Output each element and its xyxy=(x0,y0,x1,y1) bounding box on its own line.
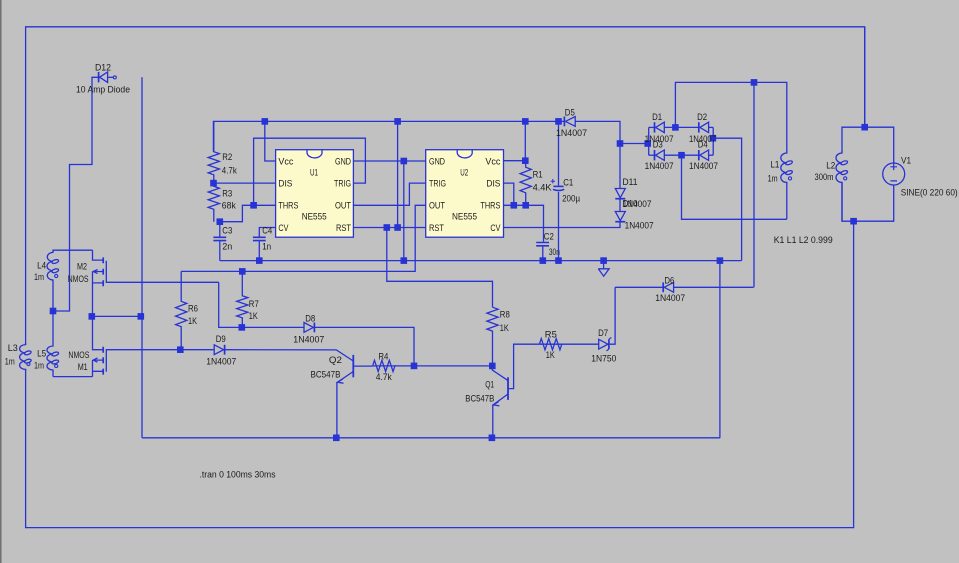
svg-text:TRIG: TRIG xyxy=(429,178,446,188)
inductor L1 xyxy=(781,151,787,219)
junction L4-L5-D12 xyxy=(50,308,57,315)
svg-text:2n: 2n xyxy=(222,241,232,251)
wire C2 bottom lead xyxy=(542,247,544,261)
wire D6 anode line xyxy=(674,286,754,288)
svg-text:68k: 68k xyxy=(222,201,236,211)
junction bridge right mid xyxy=(710,135,717,142)
junction C4 ground xyxy=(256,257,263,264)
svg-text:RST: RST xyxy=(336,223,351,233)
wire V1 loop top xyxy=(842,127,894,163)
junction R6-D9 xyxy=(177,346,184,353)
wire bridge return drop xyxy=(719,261,721,438)
wire A Vcc to RST xyxy=(397,121,399,227)
svg-text:4.4K: 4.4K xyxy=(533,183,553,193)
wire bridge bottom row xyxy=(649,154,655,156)
svg-text:NE555: NE555 xyxy=(452,211,477,221)
resistor R7 xyxy=(237,271,248,327)
svg-text:1K: 1K xyxy=(188,316,198,326)
svg-text:D6: D6 xyxy=(664,275,674,285)
svg-text:C2: C2 xyxy=(544,232,554,242)
diode D2 xyxy=(698,122,700,132)
junction bridge return xyxy=(717,257,724,264)
op-amp U1 NE555 box xyxy=(276,150,354,238)
wire ground rail xyxy=(220,260,742,262)
svg-text:SINE(0 220 60): SINE(0 220 60) xyxy=(901,187,958,197)
voltage source V1 xyxy=(883,163,905,185)
svg-text:L4: L4 xyxy=(37,260,46,270)
capacitor C4 xyxy=(253,237,266,240)
wire D1-D2 xyxy=(664,126,698,128)
diode D11 xyxy=(615,198,625,200)
svg-text:1N4007: 1N4007 xyxy=(645,161,674,171)
svg-text:1K: 1K xyxy=(546,350,556,360)
svg-text:1n: 1n xyxy=(262,241,271,251)
junction loop bottom feed xyxy=(850,218,857,225)
wire AC tap down xyxy=(753,82,755,287)
svg-text:GND: GND xyxy=(335,156,351,166)
diode D6 xyxy=(662,282,664,292)
svg-text:U2: U2 xyxy=(460,167,468,177)
junction AC top tap xyxy=(751,79,758,86)
wire Vcc U2 xyxy=(503,121,525,160)
svg-text:1m: 1m xyxy=(768,173,778,183)
wire D12 anode xyxy=(53,77,98,311)
wire CV U1 xyxy=(259,228,275,237)
wire D9 cathode line xyxy=(225,349,337,351)
wire D2 right xyxy=(709,126,714,128)
wire B GND drop xyxy=(403,161,405,261)
svg-text:R5: R5 xyxy=(545,329,557,339)
wire bridge top row xyxy=(649,126,655,128)
wire outer border xyxy=(26,27,865,345)
svg-text:THRS: THRS xyxy=(480,201,500,211)
capacitor C2 xyxy=(536,243,549,246)
junction R2-R3-DIS xyxy=(210,180,217,187)
junction R1-THRS xyxy=(522,202,529,209)
op-amp U2 NE555 box xyxy=(426,150,504,238)
svg-text:R8: R8 xyxy=(500,310,510,320)
wire D7 to D6 node xyxy=(609,287,615,344)
svg-text:1N4007: 1N4007 xyxy=(655,293,685,303)
junction GND line xyxy=(401,158,408,165)
resistor R2 xyxy=(208,121,219,183)
svg-text:1K: 1K xyxy=(249,311,259,321)
junction bridge top mid xyxy=(672,124,679,131)
svg-text:L2: L2 xyxy=(826,160,835,170)
resistor R5 xyxy=(539,339,561,350)
wire C3 top lead xyxy=(219,222,221,237)
wire D3-D4 xyxy=(664,154,698,156)
junction bridge left xyxy=(644,140,651,147)
wire D8 anode line xyxy=(242,326,304,328)
svg-text:4.7k: 4.7k xyxy=(376,372,392,382)
wire D10 to CV U2 xyxy=(503,222,620,228)
wire C3 bottom lead xyxy=(219,241,221,260)
wire V1 loop bottom xyxy=(842,182,894,221)
ground symbol xyxy=(598,261,609,277)
svg-text:C4: C4 xyxy=(262,225,272,235)
wire bridge AC top xyxy=(675,82,786,151)
junction DIS-THRS xyxy=(511,202,518,209)
wire THRS to TRIG crossover xyxy=(254,138,366,205)
svg-text:BC547B: BC547B xyxy=(311,369,341,379)
svg-text:R2: R2 xyxy=(222,152,232,162)
svg-text:200µ: 200µ xyxy=(562,194,581,204)
junction top rail Vcc U1 xyxy=(262,118,269,125)
wire M2 gate to D8 node xyxy=(219,282,242,327)
junction R8-Q1 xyxy=(489,363,496,370)
resistor R3 xyxy=(208,183,219,222)
junction D5 branch xyxy=(617,140,624,147)
junction loop top feed xyxy=(861,124,868,131)
junction top rail Vcc U2 xyxy=(522,118,529,125)
junction RST-R8 branch xyxy=(384,224,391,231)
svg-text:1K: 1K xyxy=(500,323,510,333)
wire D11-D10 xyxy=(619,199,621,212)
svg-text:CV: CV xyxy=(490,223,501,233)
wire R4 node to R8 xyxy=(414,365,492,367)
junction top rail A xyxy=(394,118,401,125)
svg-text:L5: L5 xyxy=(37,349,46,359)
wire D4 right xyxy=(709,154,714,156)
wire L1 return xyxy=(682,155,787,219)
svg-text:1N4007: 1N4007 xyxy=(293,334,324,344)
svg-text:C1: C1 xyxy=(563,178,573,188)
svg-text:RST: RST xyxy=(429,223,444,233)
svg-text:GND: GND xyxy=(429,156,445,166)
svg-text:BC547B: BC547B xyxy=(465,393,494,403)
wire L5 bottom xyxy=(53,376,93,378)
resistor R8 xyxy=(487,307,498,366)
D12 open terminal xyxy=(113,76,116,79)
diode D4 xyxy=(698,150,700,160)
svg-text:NE555: NE555 xyxy=(302,211,327,221)
wire C1 bottom xyxy=(558,192,560,261)
svg-text:R6: R6 xyxy=(188,303,198,313)
wire R4 right xyxy=(395,365,414,367)
svg-text:1m: 1m xyxy=(5,357,15,367)
diode D5 xyxy=(563,117,565,127)
svg-text:.tran 0 100ms 30ms: .tran 0 100ms 30ms xyxy=(200,470,276,480)
junction mid to vertical xyxy=(138,313,145,320)
resistor R4 xyxy=(373,360,395,371)
svg-text:10 Amp Diode: 10 Amp Diode xyxy=(76,85,130,95)
wire node half-bridge to bottom rail xyxy=(141,77,143,438)
svg-text:D11: D11 xyxy=(623,177,638,187)
svg-text:1N4007: 1N4007 xyxy=(689,161,718,171)
wire GND U1-U2 xyxy=(353,160,425,162)
wire R5 to D7 xyxy=(562,343,599,345)
svg-text:M1: M1 xyxy=(78,362,88,372)
wire D11 top lead xyxy=(619,144,621,189)
svg-text:4.7k: 4.7k xyxy=(222,166,237,176)
svg-text:DIS: DIS xyxy=(486,178,500,188)
inductor L2 xyxy=(836,151,842,221)
svg-text:1N4007: 1N4007 xyxy=(206,357,236,367)
capacitor C1 (polarized) xyxy=(553,185,563,187)
wire border left lower xyxy=(26,221,854,527)
junction M2 source / M1 drain xyxy=(89,313,96,320)
D7 zener hooks xyxy=(607,338,612,351)
wire C1 top xyxy=(558,121,560,185)
wire bridge feed xyxy=(620,143,647,145)
resistor R6 xyxy=(176,271,187,348)
svg-text:D9: D9 xyxy=(216,334,226,344)
wire bridge left xyxy=(648,127,650,155)
junction R7 top xyxy=(239,268,246,275)
wire OUT U2 down xyxy=(181,205,426,271)
junction C1 ground xyxy=(555,257,562,264)
diode D7 (zener 1N750) xyxy=(608,339,610,349)
svg-text:D7: D7 xyxy=(598,328,608,338)
svg-text:CV: CV xyxy=(278,223,289,233)
wire bridge DC out xyxy=(713,138,742,260)
svg-text:K1 L1 L2 0.999: K1 L1 L2 0.999 xyxy=(774,235,833,245)
svg-text:1N750: 1N750 xyxy=(591,354,616,364)
transistor M1 (NMOS, mirrored) xyxy=(93,316,103,349)
svg-text:R1: R1 xyxy=(533,169,543,179)
svg-text:Q2: Q2 xyxy=(329,355,342,365)
svg-text:TRIG: TRIG xyxy=(334,178,351,188)
svg-text:D5: D5 xyxy=(565,108,575,118)
svg-text:NMOS: NMOS xyxy=(68,274,89,284)
svg-text:D2: D2 xyxy=(697,112,707,122)
svg-text:C3: C3 xyxy=(222,225,232,235)
wire L4 top xyxy=(53,250,93,252)
svg-text:L1: L1 xyxy=(770,160,779,170)
svg-text:L3: L3 xyxy=(8,343,18,353)
inductor L4 xyxy=(47,251,53,308)
svg-text:R4: R4 xyxy=(378,352,388,362)
svg-text:Q1: Q1 xyxy=(485,380,494,390)
svg-text:1N4007: 1N4007 xyxy=(625,221,654,231)
junction Q1 emitter xyxy=(489,435,496,442)
junction R4-D8 xyxy=(411,363,418,370)
inductor L5 xyxy=(47,311,53,377)
wire DIS U1 xyxy=(214,182,276,184)
wire D12 cathode stub xyxy=(108,76,114,78)
svg-text:DIS: DIS xyxy=(278,178,292,188)
wire OUT U1 to TRIG U2 xyxy=(353,183,425,205)
svg-text:1N4007: 1N4007 xyxy=(556,128,587,138)
svg-text:R3: R3 xyxy=(222,188,232,198)
resistor R1 xyxy=(520,161,531,206)
diode D9 xyxy=(224,345,226,355)
diode D8 xyxy=(313,323,315,333)
svg-text:Vcc: Vcc xyxy=(485,156,500,166)
wire top feed xyxy=(864,27,866,127)
svg-text:D1: D1 xyxy=(652,112,662,122)
wire D8 cathode line xyxy=(314,327,414,366)
junction Vcc U2 / R1 xyxy=(522,157,529,164)
wire RST to R8 xyxy=(387,228,493,308)
diode D1 xyxy=(654,122,656,132)
wire C4 bottom lead xyxy=(258,241,260,260)
wire THRS U2 xyxy=(503,205,543,241)
junction gnd symbol xyxy=(600,257,607,264)
junction bridge bottom mid xyxy=(678,152,685,159)
wire D5 to bridge xyxy=(575,121,620,143)
junction R7-D8-gate xyxy=(239,324,246,331)
wire RST U1-U2 xyxy=(353,227,425,229)
junction THRS-TRIG tie xyxy=(250,202,257,209)
capacitor C3 xyxy=(213,237,226,240)
wire D9 anode line xyxy=(180,349,213,351)
junction C2 ground xyxy=(540,257,547,264)
window left edge xyxy=(0,0,2,563)
svg-text:M2: M2 xyxy=(77,262,87,272)
svg-text:V1: V1 xyxy=(901,155,911,165)
wire bridge right xyxy=(712,127,714,155)
diode D12 xyxy=(98,72,100,82)
svg-text:1N4007: 1N4007 xyxy=(623,199,652,209)
svg-text:300m: 300m xyxy=(815,172,834,182)
svg-text:OUT: OUT xyxy=(335,201,351,211)
junction RST-A xyxy=(394,224,401,231)
transistor Q2 (NPN, mirrored) xyxy=(352,355,354,377)
svg-text:D4: D4 xyxy=(698,140,708,150)
svg-text:U1: U1 xyxy=(310,167,318,177)
svg-text:NMOS: NMOS xyxy=(68,350,89,360)
svg-text:R7: R7 xyxy=(249,299,259,309)
transistor Q1 (NPN, mirrored) xyxy=(507,377,509,400)
svg-text:D12: D12 xyxy=(95,62,111,72)
diode D10 xyxy=(615,221,625,223)
svg-text:D8: D8 xyxy=(305,314,315,324)
wire D6 cathode line xyxy=(615,286,663,288)
svg-text:D3: D3 xyxy=(653,140,663,150)
svg-text:Vcc: Vcc xyxy=(278,156,293,166)
junction Q2 emitter xyxy=(333,435,340,442)
svg-text:1m: 1m xyxy=(34,272,44,282)
diode D3 xyxy=(654,150,656,160)
wire DIS U2 xyxy=(503,183,513,205)
svg-text:OUT: OUT xyxy=(429,201,445,211)
wire Vcc top rail xyxy=(213,121,564,151)
wire THRS U1 xyxy=(220,205,276,221)
wire Vcc U1 xyxy=(265,121,276,161)
svg-text:THRS: THRS xyxy=(278,201,298,211)
svg-text:1m: 1m xyxy=(34,360,44,370)
junction top rail C1 xyxy=(555,118,562,125)
junction R3-C3-THRS xyxy=(217,218,224,225)
wire emitter bottom rail xyxy=(142,437,720,439)
transistor M2 (NMOS, mirrored) xyxy=(93,250,103,260)
inductor L3 xyxy=(20,343,26,371)
wire half-bridge mid xyxy=(92,315,141,317)
junction B ground xyxy=(401,257,408,264)
